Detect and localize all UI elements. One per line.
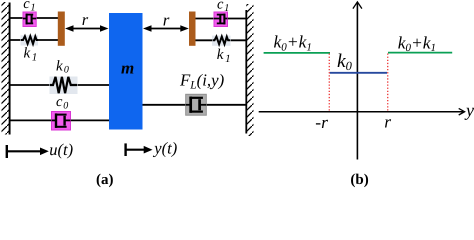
svg-text:-r: -r <box>315 112 328 132</box>
wire bar to damper c1 right <box>196 18 247 20</box>
svg-text:y: y <box>464 100 474 120</box>
svg-text:FL(i,y): FL(i,y) <box>179 71 225 92</box>
svg-text:k1: k1 <box>24 45 38 63</box>
plot vertical axis <box>353 2 362 160</box>
svg-text:u(t): u(t) <box>49 140 73 159</box>
green line k0+k1 left <box>264 52 330 54</box>
svg-text:(b): (b) <box>350 172 368 188</box>
svg-text:r: r <box>384 111 391 131</box>
spring k0 <box>50 77 78 95</box>
spring k1 right <box>212 36 231 46</box>
svg-text:k0+k1: k0+k1 <box>274 32 312 54</box>
wire wall to damper c0 to mass <box>10 119 109 121</box>
svg-text:k0: k0 <box>56 59 69 76</box>
svg-text:r: r <box>163 10 170 29</box>
displacement arrow u(t) <box>7 145 49 158</box>
svg-text:c1: c1 <box>217 0 229 14</box>
blue line k0 <box>330 72 388 74</box>
wire wall to spring k1 left <box>10 39 58 41</box>
svg-text:r: r <box>82 10 89 29</box>
gap dimension arrow r right <box>143 25 189 32</box>
friction element FL <box>186 94 207 115</box>
plot horizontal axis <box>259 108 465 115</box>
displacement arrow y(t) <box>126 143 153 156</box>
mass m <box>109 13 143 130</box>
spring k1 left <box>21 35 39 45</box>
svg-text:(a): (a) <box>96 172 114 188</box>
green line k0+k1 right <box>388 52 452 54</box>
damper c1 left <box>23 12 36 27</box>
impact stop bar left <box>58 12 65 46</box>
svg-text:c1: c1 <box>23 0 35 14</box>
red dotted line at r <box>387 54 389 111</box>
damper c0 <box>52 112 71 131</box>
right wall <box>246 4 253 136</box>
left wall <box>2 2 10 135</box>
wire bar to spring k1 right <box>196 39 247 41</box>
svg-text:k1: k1 <box>217 47 231 65</box>
wire wall to damper c1 left <box>10 17 58 19</box>
impact stop bar right <box>189 12 196 46</box>
wire mass to friction element FL to right wall <box>143 104 247 106</box>
wire wall to spring k0 to mass <box>10 84 109 86</box>
gap dimension arrow r left <box>65 25 109 32</box>
svg-text:k0: k0 <box>337 51 353 73</box>
damper c1 right <box>214 12 228 27</box>
svg-text:y(t): y(t) <box>152 139 177 158</box>
svg-text:k0+k1: k0+k1 <box>398 32 436 54</box>
svg-text:c0: c0 <box>56 94 68 112</box>
red dotted line at -r <box>328 54 330 111</box>
svg-text:m: m <box>121 58 134 77</box>
